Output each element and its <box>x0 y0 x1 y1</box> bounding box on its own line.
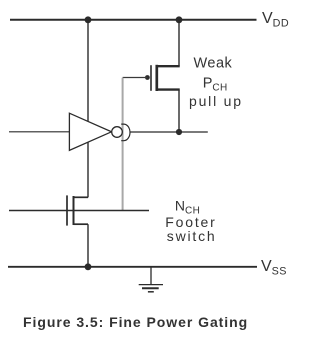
svg-text:Figure 3.5: Fine Power Gating: Figure 3.5: Fine Power Gating <box>23 314 248 330</box>
wire crossover hop over grey net <box>121 124 130 141</box>
wire PMOS drain vertical down to output node <box>178 90 180 132</box>
svg-text:Weak: Weak <box>194 56 233 72</box>
wire VDD rail <box>10 19 257 21</box>
svg-text:switch: switch <box>167 228 217 244</box>
drain stub top <box>74 196 89 198</box>
gate bar <box>150 65 152 91</box>
wire PMOS gate lead <box>123 77 148 79</box>
node junction dot on VDD rail above inverter <box>85 16 92 23</box>
wire output node horizontal <box>130 131 208 133</box>
node inverter output bubble <box>112 127 123 138</box>
source stub bottom <box>74 223 89 225</box>
transistor Q1 weak PCH pull-up PMOS <box>151 65 180 91</box>
node junction dot at PMOS drain / output <box>176 129 182 135</box>
channel bar <box>155 65 158 91</box>
node junction dot on VSS rail <box>85 263 92 270</box>
channel bar <box>73 196 75 225</box>
transistor Q2 NCH footer switch NMOS <box>67 195 88 225</box>
ground symbol <box>139 267 163 292</box>
wire grey sleep-signal vertical (PCH gate to NCH gate net) <box>122 78 124 210</box>
wire inverter ground vertical to NMOS drain <box>87 142 89 197</box>
drain stub bottom <box>157 88 180 90</box>
node PMOS gate dot <box>145 75 150 80</box>
op-amp U1 inverter triangle <box>69 113 111 150</box>
wire inverter input <box>9 131 69 133</box>
svg-text:pull up: pull up <box>189 93 243 109</box>
source stub top <box>157 65 180 67</box>
wire PMOS source vertical to VDD rail <box>178 20 180 66</box>
gate bar <box>66 195 68 225</box>
wire VSS rail <box>8 266 257 268</box>
wire inverter supply vertical (top segment) <box>87 20 89 122</box>
node junction dot on VDD rail above PMOS <box>176 16 183 23</box>
wire NMOS gate lead horizontal <box>9 210 149 212</box>
wire NMOS source vertical to VSS rail <box>87 224 89 267</box>
